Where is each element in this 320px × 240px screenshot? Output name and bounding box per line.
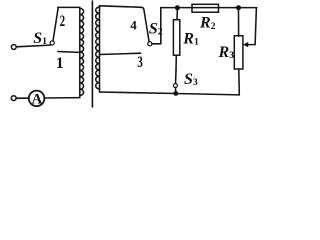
svg-text:4: 4	[130, 17, 137, 32]
bottom rail wire	[100, 92, 240, 95]
svg-text:1: 1	[56, 55, 64, 72]
wire secondary top to contact 4	[100, 6, 144, 10]
wire rail down to R1	[176, 8, 178, 20]
wire S2 pivot to riser	[152, 43, 161, 45]
secondary coil bumps	[96, 7, 100, 89]
R3 wiper arrowhead	[243, 42, 248, 47]
junction dot at S3 bottom	[173, 91, 178, 96]
resistor R1	[173, 20, 179, 56]
svg-text:A: A	[32, 92, 43, 108]
terminal post bottom-left	[11, 96, 16, 101]
wire terminal to ammeter	[16, 97, 28, 99]
wire R3 bottom to rail	[238, 69, 241, 95]
switch S2 blade	[144, 10, 149, 42]
secondary coil spine	[99, 6, 101, 92]
switch S2 pivot	[148, 42, 152, 46]
junction dot at R3 top	[236, 5, 241, 10]
primary coil bumps	[80, 8, 84, 95]
wire rail corner to wiper	[248, 8, 257, 45]
switch S1 pivot	[50, 41, 54, 45]
svg-text:2: 2	[60, 13, 66, 30]
wire tap 3 from secondary coil	[100, 53, 141, 54]
ammeter A	[29, 91, 45, 107]
resistor R2	[192, 4, 219, 12]
junction dot at R1 top	[175, 5, 180, 10]
wire ammeter to primary coil bottom	[44, 97, 79, 99]
wire S3 pivot to bottom rail	[175, 88, 177, 93]
wire R1 bottom to S3	[175, 55, 177, 71]
wire terminal to S1 pivot	[16, 45, 50, 47]
top rail wire	[161, 7, 257, 9]
primary coil spine	[79, 7, 81, 97]
resistor R3	[234, 36, 243, 69]
switch S3 blade	[175, 71, 178, 83]
terminal post top-left	[11, 45, 16, 50]
svg-text:3: 3	[137, 54, 143, 71]
switch S3 pivot	[173, 84, 177, 88]
wire contact 1 tap to primary coil	[58, 51, 80, 54]
switch S1 blade to contact 2	[53, 8, 58, 41]
wire contact 2 to primary coil top	[58, 6, 80, 8]
wire rail down to R3	[238, 8, 240, 37]
wire riser to top rail	[160, 8, 162, 44]
transformer core	[91, 1, 93, 107]
